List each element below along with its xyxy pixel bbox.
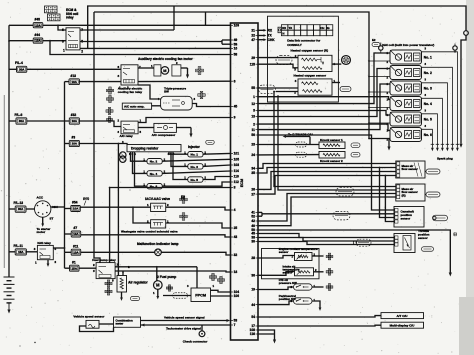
capsule connector on MAF R wires: [336, 187, 354, 196]
fuse #54 supply wire: [65, 208, 71, 210]
fuse #13 10A: [69, 79, 79, 85]
wire fan relay pin6 to pin 6 line: [79, 81, 121, 83]
svg-text:11: 11: [252, 128, 256, 132]
svg-text:No. 5: No. 5: [191, 178, 199, 182]
svg-text:10A: 10A: [72, 142, 78, 146]
svg-text:105: 105: [234, 158, 240, 162]
heated oxygen sensor enclosure: [268, 16, 339, 102]
ECM left pin 112: [231, 181, 234, 183]
wires dropping resistor to odd injectors: [169, 152, 188, 154]
wire motor to ground: [181, 67, 188, 69]
wire pin 21 RX: [258, 29, 264, 31]
svg-text:54: 54: [251, 315, 255, 319]
svg-text:10A: 10A: [35, 39, 41, 43]
wire injector No.3 to pin 103: [203, 165, 231, 166]
svg-text:30A: 30A: [18, 207, 24, 211]
wire switch to ground: [312, 301, 320, 308]
ECM right pin 19: [256, 289, 259, 291]
svg-text:A/C compressor: A/C compressor: [152, 133, 176, 137]
svg-text:28: 28: [251, 256, 255, 260]
svg-text:No. 5: No. 5: [424, 117, 432, 121]
ECM right pin 26: [256, 188, 259, 190]
wire pin 35 to MAF: [258, 168, 396, 174]
ECM right pin 40: [256, 225, 259, 227]
svg-text:sensor: sensor: [418, 236, 428, 240]
ECM left pin 45: [231, 106, 234, 108]
ECM right pin 35: [256, 172, 259, 174]
svg-text:Check connector: Check connector: [183, 340, 209, 344]
connector F101: [120, 152, 126, 158]
svg-text:10A: 10A: [73, 232, 79, 236]
fuse #32 10A: [69, 118, 79, 124]
wire: [9, 40, 33, 42]
svg-text:No. 2: No. 2: [150, 160, 158, 164]
wire top supply line B: [94, 12, 369, 139]
wire: [43, 40, 66, 42]
wire riser relay to line A: [173, 6, 175, 30]
ECM left pin 104: [231, 291, 234, 293]
svg-text:Spark plug: Spark plug: [437, 157, 453, 161]
fusible link F/L-4 30A: [17, 66, 27, 72]
connector icon: [326, 286, 328, 288]
wire pin 3 to coil No.5: [258, 111, 390, 116]
wire to connector: [314, 271, 324, 273]
injector No.3: [188, 164, 203, 169]
svg-text:Malfunction indicator lamp: Malfunction indicator lamp: [137, 242, 179, 246]
svg-text:13: 13: [251, 115, 255, 119]
ECM right pin 42: [256, 220, 259, 222]
svg-text:26: 26: [251, 188, 255, 192]
svg-text:109: 109: [234, 24, 240, 28]
svg-text:103: 103: [234, 163, 240, 167]
ECM and IGN coil relay U1: [66, 28, 80, 50]
ECM right pin 52: [256, 215, 259, 217]
wire junction to pin 58: [50, 41, 231, 55]
wire fuel pump feed: [115, 266, 197, 268]
svg-text:21: 21: [251, 29, 255, 33]
auxiliary electric cooling fan relay: [121, 65, 138, 85]
svg-text:1: 1: [253, 95, 255, 99]
dropping resistor R1: [127, 145, 181, 152]
svg-text:H: H: [282, 32, 284, 36]
wire branch to camshaft sensor: [380, 168, 395, 218]
svg-text:F/L-13: F/L-13: [14, 201, 24, 205]
svg-text:27: 27: [251, 192, 255, 196]
svg-text:10A: 10A: [72, 119, 78, 123]
wire: [65, 233, 72, 235]
svg-text:55: 55: [251, 86, 255, 90]
ignition coil No.3 T3: [390, 81, 422, 95]
ECM left pin 58: [231, 54, 234, 56]
wire coil power: [369, 76, 390, 78]
ECM right pin 29: [256, 57, 259, 59]
ECM right pin 17: [256, 325, 259, 327]
ECM right pin 24: [256, 154, 259, 156]
ECM right pin 44: [256, 304, 259, 306]
ground: [186, 75, 189, 79]
A/C relay: [121, 121, 138, 134]
ECM left pin 4: [231, 209, 234, 211]
wire SW supply: [138, 85, 161, 99]
wire coil power: [369, 60, 390, 62]
ECM right pin 23: [256, 144, 259, 146]
ECM left pin 9: [231, 117, 234, 119]
wire pin 12 to coil No.1: [258, 53, 390, 104]
coolant and intake sensor enclosure: [262, 249, 320, 279]
wire IGN relay ground: [47, 260, 49, 264]
svg-text:#44: #44: [35, 33, 41, 37]
wire pin 54 to A/T C/U: [258, 316, 381, 317]
connector icons above FPCM: [209, 276, 211, 278]
wire pin 22 TX: [258, 35, 264, 37]
connector circle: [379, 46, 383, 50]
wire: [9, 120, 16, 122]
injector No.4: [147, 171, 162, 176]
wire: [9, 24, 33, 26]
A/C auto amp: [122, 103, 151, 109]
connector icon: [196, 69, 199, 72]
svg-text:#32: #32: [71, 113, 77, 117]
wire injector No.5 to pin 110: [203, 177, 231, 180]
A/C compressor: [154, 123, 177, 132]
wire: [99, 323, 114, 325]
ECM right pin 22: [256, 35, 259, 37]
injector No.5: [188, 177, 203, 182]
svg-text:7: 7: [234, 323, 236, 327]
svg-text:16: 16: [234, 47, 238, 51]
connector icon: [180, 215, 182, 217]
svg-text:sensor: sensor: [279, 250, 289, 254]
svg-text:44: 44: [251, 303, 255, 307]
wire to FPCM top: [196, 267, 198, 288]
combination meter: [114, 317, 141, 327]
svg-text:3: 3: [118, 74, 120, 78]
svg-text:114: 114: [234, 169, 239, 173]
svg-text:No. 4: No. 4: [424, 102, 432, 106]
svg-text:15A: 15A: [72, 266, 78, 270]
wire IACV to ECM pin 4: [166, 207, 231, 210]
wire FPCM to pin 104: [211, 290, 231, 292]
ECM right pin 12: [256, 103, 259, 105]
ignition coil No.2 T2: [390, 66, 422, 80]
svg-text:IACV-AAC valve: IACV-AAC valve: [145, 197, 170, 201]
wire coil power: [369, 107, 390, 109]
ECM right pin 116: [256, 333, 259, 335]
svg-text:Dropping resistor: Dropping resistor: [131, 147, 159, 151]
svg-text:36: 36: [251, 274, 255, 278]
ignition switch output bus wire: [64, 82, 66, 253]
wires dropping resistor to even injectors: [131, 152, 148, 161]
connector icon below fuel pump relay: [105, 282, 107, 284]
svg-text:112: 112: [234, 180, 239, 184]
wire injector No.1 to pin 101: [203, 152, 231, 155]
svg-text:No. 1: No. 1: [191, 153, 199, 157]
wire #32 to A/C relay: [79, 121, 121, 127]
ECM left pin 16: [231, 47, 234, 49]
capsule connector: [259, 85, 276, 94]
connector oval: [422, 247, 434, 252]
svg-text:Air regulator: Air regulator: [128, 281, 148, 285]
connector icon: [326, 271, 328, 273]
connector oval: [351, 143, 360, 148]
ECM left pin 7: [231, 324, 234, 326]
wire coil power: [369, 138, 390, 140]
ECM right pin 3: [256, 110, 259, 112]
ECM right pin 34: [256, 167, 259, 169]
svg-text:Heated oxygen sensor: Heated oxygen sensor: [294, 74, 327, 78]
knock sensor 2 KS2: [319, 152, 345, 159]
svg-text:24: 24: [251, 153, 255, 157]
wire to park neutral switch: [258, 301, 294, 305]
wire: [65, 81, 70, 83]
wire pin 13 to coil No.2: [258, 69, 390, 117]
capsule connector on camshaft wires: [333, 211, 350, 220]
ECM right pin 115: [256, 63, 259, 65]
ECM right pin 55: [256, 87, 259, 89]
svg-text:A/T C/U: A/T C/U: [396, 314, 408, 318]
ECM left pin 18: [231, 271, 234, 273]
svg-text:Injector: Injector: [188, 145, 201, 149]
svg-text:23: 23: [251, 143, 255, 147]
svg-text:Multi-display C/U: Multi-display C/U: [390, 324, 416, 328]
svg-text:IGN relay: IGN relay: [37, 241, 51, 245]
wire pin 50 throttle ground: [258, 230, 450, 273]
svg-text:IGN coil (built into power tra: IGN coil (built into power transistor): [382, 43, 434, 47]
svg-text:relay: relay: [66, 15, 74, 19]
ECM left pin 32: [231, 254, 234, 256]
ECM right pin 38: [256, 237, 259, 239]
fan motor M1: [154, 65, 161, 76]
svg-text:Vehicle speed sensor signal: Vehicle speed sensor signal: [164, 316, 205, 320]
svg-text:30A: 30A: [19, 119, 25, 123]
wire pin 11 to coil No.3: [258, 84, 390, 130]
svg-text:30: 30: [251, 240, 255, 244]
svg-text:ECM: ECM: [240, 179, 244, 188]
wire: [65, 267, 70, 269]
ECM left pin 43: [231, 236, 234, 238]
ECM right pin 54: [256, 316, 259, 318]
svg-text:CHK: CHK: [268, 38, 276, 42]
svg-text:A/C auto amp.: A/C auto amp.: [124, 105, 145, 109]
wire to pin 8: [110, 187, 231, 189]
A/T C/U: [381, 313, 424, 319]
wire top supply line A: [88, 6, 466, 48]
wire pin 47 CHK: [258, 39, 264, 41]
wire ignition switch to bus: [51, 206, 65, 208]
capsule connector: [276, 56, 292, 65]
ECM left pin 106: [231, 295, 234, 297]
svg-text:#54: #54: [72, 201, 78, 205]
multi-display C/U: [381, 322, 424, 328]
connector oval: [206, 140, 215, 144]
svg-text:9: 9: [234, 116, 236, 120]
fusible link F/L-13 30A: [15, 206, 26, 212]
svg-text:Auxiliary electric cooling fan: Auxiliary electric cooling fan motor: [138, 57, 193, 61]
wire pin 23 to knock sensor 1: [258, 144, 319, 146]
svg-text:1: 1: [63, 49, 65, 53]
svg-text:#3: #3: [72, 136, 76, 140]
wire coil power: [369, 91, 390, 93]
svg-text:#11: #11: [73, 244, 78, 248]
fuse #54 10A: [71, 206, 81, 212]
wire to connector: [312, 255, 324, 257]
svg-text:10A: 10A: [73, 250, 79, 254]
connector icon: [166, 287, 168, 289]
wire injector No.2 to pin 105: [162, 159, 230, 161]
ignition coil No.5 T5: [390, 112, 422, 126]
ECM left pin 114: [231, 170, 234, 172]
ECM right pin 13: [256, 116, 259, 118]
wire A/C relay to compressor: [138, 127, 154, 129]
ECM right pin 28: [256, 257, 259, 259]
ECM left pin 59: [231, 43, 234, 45]
wire relay pin7 to ECM pin 109: [80, 29, 174, 31]
connector icon above ECM relay: [45, 6, 58, 13]
ECM right pin 47: [256, 39, 259, 41]
svg-text:12: 12: [251, 102, 255, 106]
svg-text:Heated oxygen sensor (R): Heated oxygen sensor (R): [291, 48, 329, 52]
connector icons left stack: [106, 110, 108, 112]
wire branch to air regulator: [122, 272, 124, 276]
svg-text:No. 2: No. 2: [424, 71, 432, 75]
svg-text:45: 45: [234, 105, 238, 109]
capsule connector: [296, 142, 307, 147]
svg-text:CH: CH: [320, 26, 324, 30]
wire #1 to fuel pump relay: [79, 267, 96, 269]
svg-text:2: 2: [253, 122, 255, 126]
wire to starter motor: [42, 217, 44, 223]
ground: [121, 292, 123, 298]
svg-text:ST: ST: [50, 217, 54, 221]
wire sensor output: [332, 63, 341, 65]
wire pin 26 to MAF: [258, 172, 396, 190]
svg-text:CONSULT: CONSULT: [287, 43, 302, 47]
tachometer drive signal wire from pin 7: [141, 324, 231, 326]
wire FPCM to pin 106: [211, 295, 231, 297]
ECM left pin 53: [231, 320, 234, 322]
svg-text:M: M: [163, 69, 166, 73]
capsule connector: [296, 152, 307, 157]
ECM right pin 36: [256, 274, 259, 276]
wire wastegate to ECM pin 25: [166, 223, 231, 228]
scan noise dots: [34, 342, 35, 343]
camshaft position sensor B5: [394, 207, 424, 228]
svg-text:32: 32: [234, 253, 238, 257]
wire pin 56 to camshaft sensor: [258, 135, 394, 210]
wire to coolant sensor: [258, 256, 295, 259]
svg-text:3: 3: [62, 40, 64, 44]
svg-text:47: 47: [251, 38, 255, 42]
svg-text:Knock sensor 2: Knock sensor 2: [320, 159, 343, 163]
wire coil shield ground: [369, 139, 389, 147]
op-amp ECM engine control module U3: [231, 23, 259, 340]
knock sensor 1 KS1: [319, 142, 345, 149]
wire IGN relay output: [53, 247, 64, 249]
svg-text:116: 116: [250, 332, 255, 336]
svg-text:#1: #1: [72, 260, 76, 264]
wire #7 to ECM pin 43: [81, 235, 231, 237]
connector oval: [351, 152, 360, 157]
wire amp to SW: [152, 105, 161, 107]
svg-text:29: 29: [251, 56, 255, 60]
connector icon: [198, 94, 200, 96]
wire #3 to dropping resistor: [79, 144, 127, 145]
svg-text:motor: motor: [37, 230, 46, 234]
svg-text:A/C relay: A/C relay: [120, 134, 134, 138]
svg-text:To E-TS/ABS C/U: To E-TS/ABS C/U: [288, 132, 313, 136]
svg-text:10A: 10A: [35, 23, 41, 27]
wire to fuel pump: [156, 267, 158, 281]
wire to connector: [312, 286, 324, 288]
svg-text:6: 6: [118, 65, 120, 69]
wire pin 29 to sensor: [258, 57, 298, 59]
ECM left pin 101: [231, 152, 234, 154]
svg-text:4: 4: [234, 208, 236, 212]
connector circle: [464, 31, 469, 36]
ignition coil No.4 T4: [390, 97, 422, 111]
svg-text:TX: TX: [289, 26, 293, 30]
wire main distribution bus vertical: [94, 12, 100, 263]
fusible link F/L-6 30A: [16, 118, 27, 124]
ECM right pin 45: [256, 233, 259, 235]
ECM right pin 11: [256, 129, 259, 131]
svg-text:Vehicle speed sensor: Vehicle speed sensor: [73, 315, 105, 319]
wire branch to wastegate valve: [133, 207, 151, 223]
wire to PS oil pressure switch: [258, 287, 294, 290]
wire relay pin2 to pin 16: [80, 47, 231, 49]
wastegate valve control solenoid valve L2: [151, 220, 166, 228]
svg-text:2: 2: [81, 50, 83, 54]
svg-text:34: 34: [251, 167, 255, 171]
svg-text:sensor: sensor: [401, 216, 411, 220]
wire pin 115 to sensor: [258, 64, 298, 68]
wire riser to line B: [205, 12, 207, 25]
svg-text:F/L-4: F/L-4: [15, 61, 23, 65]
connector oval: [131, 296, 140, 300]
svg-text:110: 110: [234, 175, 239, 179]
wire injector No.6 to pin 112: [162, 182, 230, 186]
wire: [58, 25, 66, 30]
capsule connector: [173, 293, 188, 299]
fusible link F/L-11 15A: [15, 249, 26, 255]
svg-text:42: 42: [251, 219, 255, 223]
svg-text:Wastegate valve control soleno: Wastegate valve control solenoid valve: [121, 229, 178, 233]
battery positive bus wire: [8, 25, 10, 277]
ECM right pin 30: [256, 241, 259, 243]
injector No.6: [147, 184, 162, 189]
air regulator R2: [117, 276, 127, 293]
svg-text:RX: RX: [282, 26, 286, 30]
round connector flange: [341, 55, 350, 64]
wire pins 41/52 bracket to camshaft sensor: [258, 211, 262, 213]
wire sensor 2 output: [332, 82, 340, 84]
connector icon: [326, 255, 328, 257]
wire relay pin5 to pins 49/59: [80, 41, 222, 43]
ECM right pin 56: [256, 134, 259, 136]
svg-text:#7: #7: [74, 226, 78, 230]
svg-text:(-): (-): [454, 232, 457, 236]
malfunction indicator lamp LP1: [155, 249, 162, 256]
ignition switch SW1: [35, 201, 51, 217]
connector oval E2: [372, 43, 380, 47]
wire to intake air temp sensor: [258, 272, 295, 276]
wire sensor loop: [80, 326, 114, 332]
wire relay to motor: [138, 67, 154, 69]
fuse #3 10A: [69, 140, 79, 146]
wire: [65, 143, 70, 145]
svg-text:43: 43: [234, 235, 238, 239]
ECM left pin 49: [231, 39, 234, 41]
